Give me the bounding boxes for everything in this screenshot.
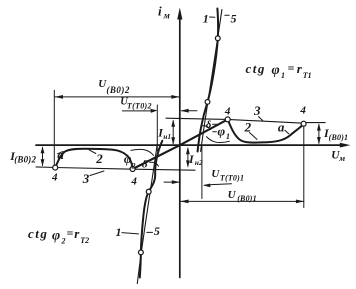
svg-text:2: 2 — [61, 236, 66, 245]
svg-text:Т2: Т2 — [80, 236, 89, 245]
svg-text:φ: φ — [218, 124, 226, 139]
svg-text:(В0)1: (В0)1 — [329, 133, 349, 142]
svg-text:4: 4 — [299, 105, 306, 117]
svg-text:δ: δ — [142, 159, 148, 171]
svg-text:1: 1 — [116, 225, 122, 239]
svg-text:1: 1 — [281, 71, 285, 80]
svg-text:4: 4 — [51, 171, 58, 183]
svg-text:3: 3 — [82, 171, 90, 186]
svg-text:н2: н2 — [195, 158, 203, 167]
svg-text:м: м — [338, 153, 345, 163]
svg-text:i: i — [158, 3, 162, 18]
svg-text:Т(Т0)2: Т(Т0)2 — [127, 101, 152, 110]
svg-text:(В0)1: (В0)1 — [237, 194, 257, 203]
svg-text:ctg: ctg — [28, 226, 48, 241]
svg-text:2: 2 — [95, 151, 103, 166]
svg-text:=: = — [288, 61, 295, 75]
svg-text:м: м — [163, 10, 170, 20]
svg-text:δ: δ — [206, 119, 212, 131]
svg-text:a: a — [57, 147, 64, 162]
svg-text:(В0)2: (В0)2 — [106, 85, 129, 95]
svg-text:1: 1 — [203, 11, 209, 25]
svg-text:ctg: ctg — [246, 61, 266, 76]
svg-text:4: 4 — [224, 106, 231, 118]
svg-text:2: 2 — [244, 119, 252, 134]
svg-text:2: 2 — [131, 161, 136, 170]
svg-text:1: 1 — [226, 132, 230, 141]
svg-text:φ: φ — [272, 63, 280, 78]
svg-text:Т1: Т1 — [303, 71, 312, 80]
svg-text:5: 5 — [231, 11, 237, 25]
svg-text:4: 4 — [130, 175, 137, 187]
svg-text:5: 5 — [154, 224, 160, 238]
svg-text:a: a — [278, 119, 285, 134]
svg-text:φ: φ — [52, 229, 60, 244]
svg-text:3: 3 — [253, 103, 261, 118]
svg-text:н1: н1 — [163, 132, 171, 141]
svg-text:(В0)2: (В0)2 — [14, 155, 36, 165]
svg-text:Т(Т0)1: Т(Т0)1 — [220, 174, 244, 183]
svg-text:U: U — [228, 189, 237, 201]
svg-text:=: = — [67, 226, 74, 240]
